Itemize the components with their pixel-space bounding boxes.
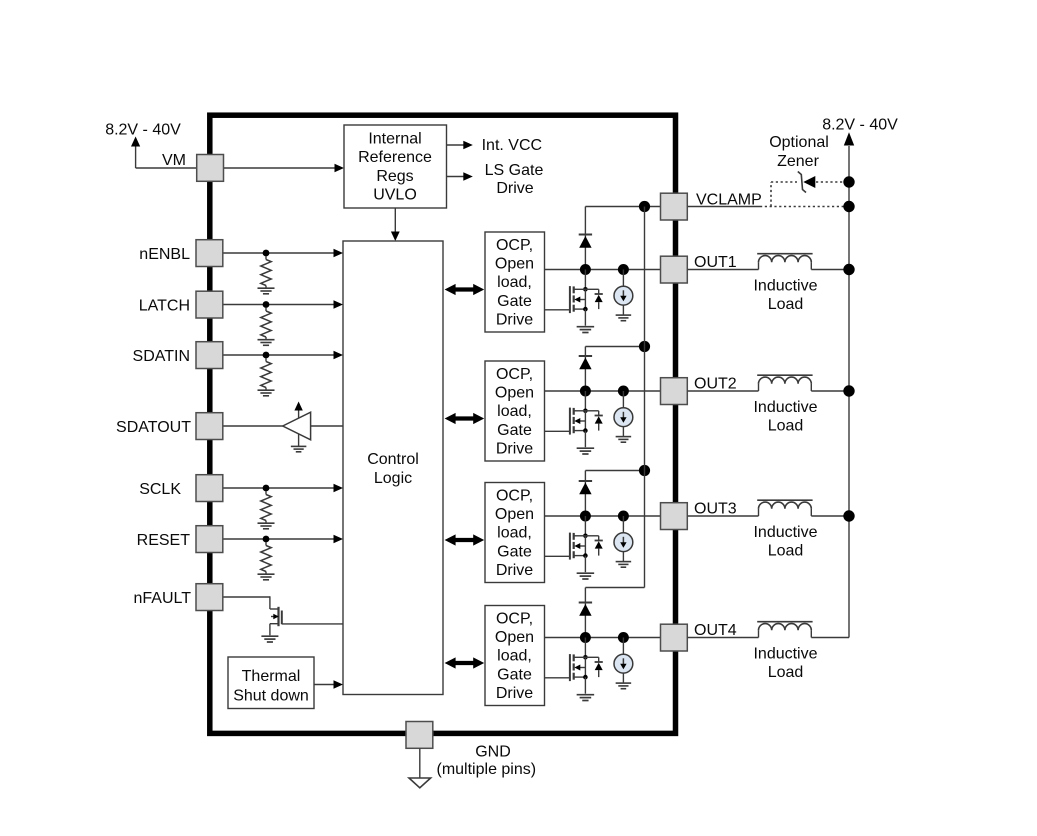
ground current source I2 <box>616 437 632 443</box>
wire OUT2 pin to inductor <box>688 390 759 392</box>
transistor M3 low-side power MOSFET <box>570 516 603 572</box>
wire control logic to Q1 gate <box>282 623 343 625</box>
svg-text:Inductive: Inductive <box>753 646 817 663</box>
svg-text:Shut down: Shut down <box>233 687 309 704</box>
wire OUT1 pin to inductor <box>688 269 759 271</box>
block Thermal Shut down <box>228 657 314 709</box>
svg-text:SDATIN: SDATIN <box>133 348 190 365</box>
wire VCLAMP clamp rail vertical <box>644 207 646 588</box>
node junction dot on nENBL line <box>263 250 270 257</box>
pin SCLK pad <box>196 475 223 502</box>
wire control logic to buffer input <box>311 425 343 427</box>
diode clamp D4 <box>579 603 592 638</box>
pin label nFAULT <box>134 590 192 607</box>
transistor Q1 nFAULT open-drain <box>270 607 282 636</box>
ground current source I4 <box>616 683 632 689</box>
node junction dot on LATCH line <box>263 301 270 308</box>
label Inductive Load 4 <box>753 646 817 681</box>
transistor M1 low-side power MOSFET <box>570 270 603 326</box>
resistor pulldown on SDATIN <box>258 358 275 396</box>
svg-text:Logic: Logic <box>374 470 412 487</box>
svg-text:Int. VCC: Int. VCC <box>482 137 542 154</box>
node junction dot rail branch 3 <box>639 465 650 476</box>
diode clamp D2 <box>579 356 592 391</box>
node junction dot OUT1 a <box>580 264 591 275</box>
ground M2 source <box>577 448 595 454</box>
svg-text:Inductive: Inductive <box>753 399 817 416</box>
resistor pulldown on nENBL <box>258 256 275 294</box>
svg-text:GND: GND <box>475 743 511 760</box>
block Control Logic U2 <box>343 241 443 695</box>
pin label OUT1 <box>694 254 737 271</box>
wire inductor L1 to supply rail <box>811 269 849 271</box>
transistor M4 low-side power MOSFET <box>570 638 603 694</box>
pin label VCLAMP <box>696 192 762 209</box>
wire nFAULT pin to transistor drain <box>223 596 270 609</box>
transistor M2 low-side power MOSFET <box>570 391 603 447</box>
op-amp buffer U3 (SDATOUT driver) <box>283 412 311 440</box>
bidirectional bus arrow control logic to OCP4 <box>445 657 485 668</box>
ground chassis symbol (open triangle) <box>409 778 431 788</box>
node junction dot OUT3 b <box>618 511 629 522</box>
wire SCLK pin to control logic with arrowhead <box>223 484 343 493</box>
svg-text:UVLO: UVLO <box>373 187 417 204</box>
block OCP Open-load Gate Drive channel 4 <box>485 606 545 706</box>
resistor pulldown on SCLK <box>258 491 275 529</box>
wire Int. VCC output arrow <box>447 141 473 150</box>
wire clamp rail branch channel 4 <box>585 588 644 603</box>
wire clamp rail branch channel 3 <box>585 471 644 482</box>
node junction dot OUT4 a <box>580 632 591 643</box>
pin label LATCH <box>139 297 190 314</box>
svg-text:nFAULT: nFAULT <box>134 590 192 607</box>
svg-text:SCLK: SCLK <box>139 481 181 498</box>
label GND multiple pins <box>437 743 537 778</box>
wire OCP2 gate drive to M2 gate <box>545 430 570 432</box>
wire inductor L2 to supply rail <box>811 390 849 392</box>
wire OUT4 pin to inductor <box>688 637 759 639</box>
wire OCP2 to OUT2 pin <box>545 390 661 392</box>
svg-text:Load: Load <box>768 542 804 559</box>
supply arrow up (right) <box>844 132 854 206</box>
current source I1 <box>614 270 633 315</box>
svg-text:Open: Open <box>495 506 534 523</box>
svg-text:(multiple pins): (multiple pins) <box>437 761 537 778</box>
pin OUT4 pad <box>661 624 688 651</box>
svg-text:Drive: Drive <box>496 562 533 579</box>
node junction dot on SDATIN line <box>263 352 270 359</box>
wire nENBL pin to control logic with arrowhead <box>223 249 343 258</box>
buffer ground <box>291 434 307 452</box>
bidirectional bus arrow control logic to OCP2 <box>445 413 485 424</box>
wire OCP4 to OUT4 pin <box>545 637 661 639</box>
pin RESET pad <box>196 526 223 553</box>
pin label OUT4 <box>694 622 737 639</box>
node junction dot rail OUT1 <box>843 264 854 275</box>
node junction dot rail OUT3 <box>843 510 854 521</box>
label Int. VCC <box>482 137 542 154</box>
svg-text:load,: load, <box>497 648 532 665</box>
svg-text:OCP,: OCP, <box>496 488 533 505</box>
IC body outline U1 <box>210 115 676 733</box>
wire SDATIN pin to control logic with arrowhead <box>223 351 343 360</box>
node junction dot rail branch 2 <box>639 341 650 352</box>
label Inductive Load 3 <box>753 524 817 559</box>
svg-text:load,: load, <box>497 403 532 420</box>
svg-text:load,: load, <box>497 525 532 542</box>
pin GND pad <box>406 722 433 749</box>
node junction dot on SCLK line <box>263 485 270 492</box>
svg-text:OCP,: OCP, <box>496 237 533 254</box>
ground M4 source <box>577 695 595 701</box>
inductor L4 inductive load <box>757 622 812 638</box>
svg-text:Open: Open <box>495 385 534 402</box>
node junction dot rail at zener <box>843 176 854 187</box>
block OCP Open-load Gate Drive channel 1 <box>485 232 545 332</box>
svg-text:Gate: Gate <box>497 543 532 560</box>
svg-text:Inductive: Inductive <box>753 278 817 295</box>
label Optional Zener <box>769 134 829 170</box>
node junction dot OUT2 a <box>580 386 591 397</box>
svg-text:Inductive: Inductive <box>753 524 817 541</box>
pin label OUT2 <box>694 376 737 393</box>
supply arrow up (left) <box>131 137 140 169</box>
svg-text:LATCH: LATCH <box>139 297 190 314</box>
node junction dot VCLAMP rail <box>639 201 650 212</box>
ground M1 source <box>577 327 595 333</box>
ground M3 source <box>577 573 595 579</box>
wire VM pin to reference block with arrowhead <box>224 164 344 173</box>
wire VCLAMP dotted to rail <box>760 206 849 208</box>
pin nENBL pad <box>196 240 223 267</box>
svg-text:OUT2: OUT2 <box>694 376 737 393</box>
svg-text:Optional: Optional <box>769 134 829 151</box>
svg-text:OUT3: OUT3 <box>694 501 737 518</box>
svg-text:Regs: Regs <box>376 168 413 185</box>
block Internal Reference Regs UVLO <box>344 125 447 208</box>
svg-text:Thermal: Thermal <box>242 668 301 685</box>
svg-text:load,: load, <box>497 274 532 291</box>
inductor L2 inductive load <box>757 375 812 391</box>
wire thermal shutdown to control logic with arrowhead <box>314 680 343 689</box>
wire LS Gate Drive output arrow <box>447 172 473 181</box>
supply label 8.2V - 40V (right) <box>822 117 898 134</box>
svg-text:8.2V - 40V: 8.2V - 40V <box>822 117 898 134</box>
node junction dot OUT2 b <box>618 386 629 397</box>
svg-text:Load: Load <box>768 664 804 681</box>
ground current source I1 <box>616 315 632 321</box>
svg-text:SDATOUT: SDATOUT <box>116 419 191 436</box>
wire OCP3 to OUT3 pin <box>545 515 661 517</box>
block OCP Open-load Gate Drive channel 2 <box>485 361 545 461</box>
ground current source I3 <box>616 562 632 568</box>
wire supply rail right <box>848 207 850 638</box>
pin label SDATIN <box>133 348 190 365</box>
buffer supply arrow up <box>294 402 302 418</box>
svg-text:Control: Control <box>367 451 419 468</box>
pin nFAULT pad <box>196 584 223 611</box>
wire OCP1 gate drive to M1 gate <box>545 309 570 311</box>
pin VCLAMP pad <box>661 193 688 220</box>
wire reference block to control logic with arrowhead <box>391 208 400 241</box>
svg-text:Drive: Drive <box>496 180 533 197</box>
pin label RESET <box>137 532 191 549</box>
svg-text:OCP,: OCP, <box>496 611 533 628</box>
svg-text:Gate: Gate <box>497 666 532 683</box>
svg-text:OCP,: OCP, <box>496 366 533 383</box>
wire inductor L4 to supply rail <box>811 637 849 639</box>
svg-text:Drive: Drive <box>496 440 533 457</box>
diode optional zener DZ <box>798 172 816 193</box>
current source I3 <box>614 516 633 561</box>
pin label VM <box>162 152 186 169</box>
wire clamp rail branch channel 2 <box>585 347 644 357</box>
wire OCP1 to OUT1 pin <box>545 269 661 271</box>
wire OCP3 gate drive to M3 gate <box>545 555 570 557</box>
svg-text:VM: VM <box>162 152 186 169</box>
node junction dot OUT3 a <box>580 511 591 522</box>
label LS Gate Drive <box>485 162 544 197</box>
diode clamp D1 <box>579 235 592 270</box>
pin VM pad <box>197 155 224 182</box>
svg-text:nENBL: nENBL <box>139 246 190 263</box>
pin label nENBL <box>139 246 190 263</box>
wire dotted zener branch <box>771 182 849 207</box>
svg-text:Drive: Drive <box>496 685 533 702</box>
pin label SDATOUT <box>116 419 191 436</box>
svg-text:LS Gate: LS Gate <box>485 162 544 179</box>
pin OUT2 pad <box>661 378 688 405</box>
svg-text:Gate: Gate <box>497 293 532 310</box>
wire OUT3 pin to inductor <box>688 515 759 517</box>
wire RESET pin to control logic with arrowhead <box>223 535 343 544</box>
current source I2 <box>614 391 633 436</box>
block OCP Open-load Gate Drive channel 3 <box>485 483 545 583</box>
node junction dot on RESET line <box>263 536 270 543</box>
wire SDATOUT pin to buffer output <box>223 425 283 427</box>
bidirectional bus arrow control logic to OCP3 <box>445 534 485 545</box>
node junction dot OUT1 b <box>618 264 629 275</box>
inductor L3 inductive load <box>757 500 812 516</box>
wire VM supply to VM pin <box>136 167 197 169</box>
svg-text:RESET: RESET <box>137 532 191 549</box>
svg-text:8.2V - 40V: 8.2V - 40V <box>105 122 181 139</box>
pin label SCLK <box>139 481 181 498</box>
current source I4 <box>614 638 633 683</box>
svg-text:Open: Open <box>495 256 534 273</box>
svg-text:Gate: Gate <box>497 422 532 439</box>
node junction dot rail at VCLAMP <box>843 201 854 212</box>
pin OUT3 pad <box>661 503 688 530</box>
pin OUT1 pad <box>661 256 688 283</box>
diode clamp D3 <box>579 481 592 516</box>
node VM supply 8.2V-40V label <box>105 122 181 139</box>
pin SDATOUT pad <box>196 413 223 440</box>
wire OCP4 gate drive to M4 gate <box>545 677 570 679</box>
wire VCLAMP pin external solid <box>688 206 761 208</box>
svg-text:Open: Open <box>495 629 534 646</box>
wire GND pin down <box>419 749 421 779</box>
svg-text:Zener: Zener <box>777 153 819 170</box>
wire VCLAMP pin to clamp diode 1 <box>585 207 660 235</box>
svg-text:Internal: Internal <box>368 131 421 148</box>
svg-text:Load: Load <box>768 296 804 313</box>
label Inductive Load 1 <box>753 278 817 313</box>
node junction dot OUT4 b <box>618 632 629 643</box>
inductor L1 inductive load <box>757 254 812 270</box>
pin LATCH pad <box>196 291 223 318</box>
pin SDATIN pad <box>196 342 223 369</box>
resistor pulldown on LATCH <box>258 308 275 346</box>
wire inductor L3 to supply rail <box>811 515 849 517</box>
svg-text:Load: Load <box>768 417 804 434</box>
label Inductive Load 2 <box>753 399 817 434</box>
ground Q1 source <box>261 636 278 642</box>
svg-text:Drive: Drive <box>496 311 533 328</box>
node junction dot rail OUT2 <box>843 385 854 396</box>
svg-text:OUT4: OUT4 <box>694 622 737 639</box>
wire LATCH pin to control logic with arrowhead <box>223 300 343 309</box>
svg-text:OUT1: OUT1 <box>694 254 737 271</box>
pin label OUT3 <box>694 501 737 518</box>
svg-text:Reference: Reference <box>358 149 432 166</box>
bidirectional bus arrow control logic to OCP1 <box>445 284 485 295</box>
resistor pulldown on RESET <box>258 542 275 580</box>
